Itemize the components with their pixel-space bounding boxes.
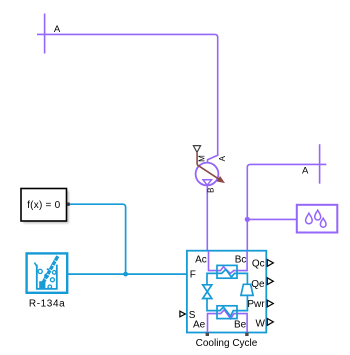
svg-text:A: A [54, 24, 61, 35]
svg-text:Bc: Bc [235, 254, 247, 265]
svg-text:F: F [190, 269, 196, 280]
svg-text:Cooling Cycle: Cooling Cycle [196, 338, 258, 349]
svg-text:Ae: Ae [193, 320, 206, 331]
svg-text:Qe: Qe [251, 279, 265, 290]
svg-text:M: M [198, 155, 207, 162]
svg-text:Be: Be [234, 320, 247, 331]
svg-text:Ac: Ac [195, 254, 207, 265]
svg-text:W: W [255, 318, 265, 329]
svg-text:Qc: Qc [252, 259, 265, 270]
svg-text:Pwr: Pwr [247, 299, 265, 310]
svg-text:A: A [302, 166, 309, 177]
svg-text:R-134a: R-134a [29, 299, 65, 310]
svg-text:f(x) = 0: f(x) = 0 [27, 200, 61, 211]
svg-text:B: B [207, 188, 216, 193]
svg-text:A: A [218, 155, 227, 161]
